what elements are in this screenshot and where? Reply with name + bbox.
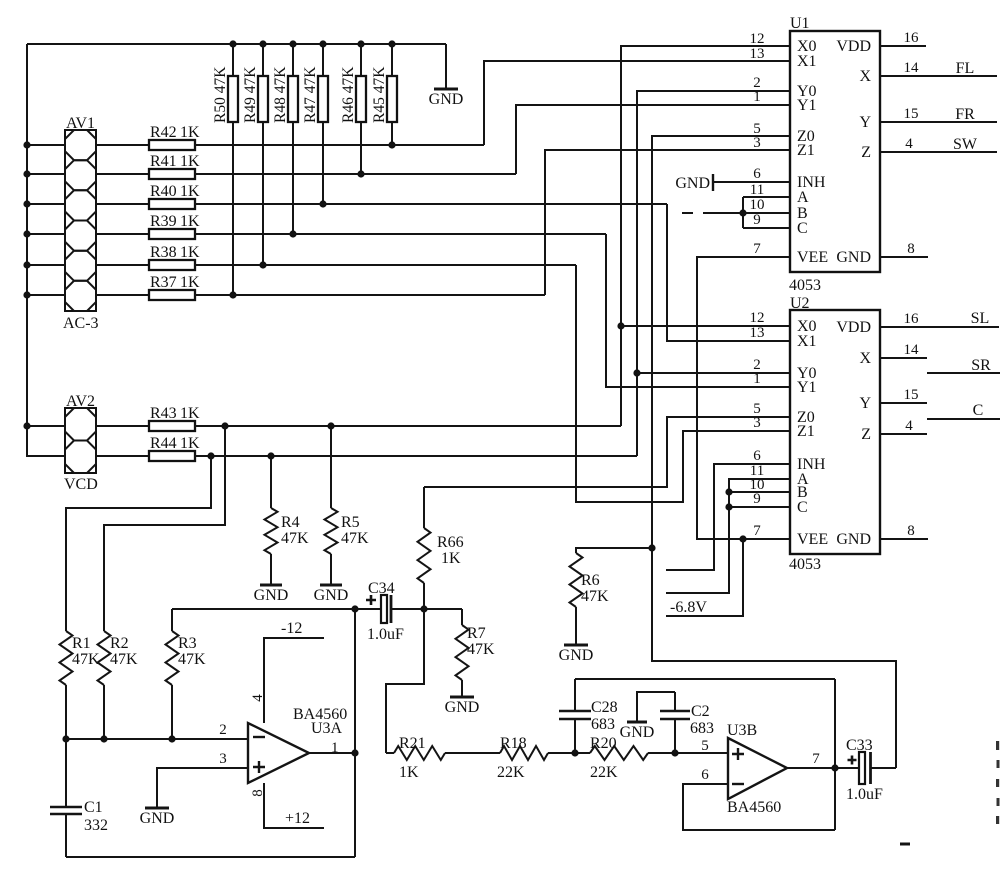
svg-text:6: 6 [753, 448, 761, 464]
capacitor C34 1.0uF electrolytic [366, 580, 404, 643]
svg-text:13: 13 [750, 46, 765, 62]
junction dot left bus row y=234 [23, 230, 30, 237]
svg-text:U2: U2 [790, 295, 810, 312]
resistor R48 47K vertical [272, 44, 298, 234]
wire R39 output row [195, 233, 606, 235]
junction dot -6.8V tap on VEE link [739, 535, 746, 542]
svg-text:1K: 1K [180, 183, 200, 200]
wire C34 right to R7 corner [392, 608, 462, 610]
connector AV2 (2-pin, VCD input) [64, 393, 98, 493]
svg-text:C1: C1 [84, 799, 103, 816]
svg-text:683: 683 [591, 716, 615, 733]
wire from AV1 to resistor R41 [96, 173, 149, 175]
wire AV1 row R38 from left bus to connector [27, 264, 65, 266]
junction dot R6 tap at (652,548) [648, 544, 655, 551]
svg-text:R3: R3 [178, 635, 197, 652]
svg-text:GND: GND [620, 724, 655, 741]
svg-text:47K: 47K [281, 530, 309, 547]
capacitor C2 683 [660, 692, 714, 753]
wire U2 VDD pin 16 output SL [880, 326, 999, 328]
svg-text:R2: R2 [110, 635, 129, 652]
svg-text:47K: 47K [467, 641, 495, 658]
resistor R21 1K horizontal [386, 735, 445, 781]
resistor R49 47K vertical [242, 44, 268, 265]
wire R40 output row [195, 203, 667, 205]
svg-text:FR: FR [955, 106, 975, 123]
svg-text:22K: 22K [497, 764, 525, 781]
wire U2 X pin 14 [880, 357, 927, 359]
svg-text:R45 47K: R45 47K [371, 66, 388, 123]
wire net R38 to U2.Z1: down at x=576, right, up at x=683 [576, 265, 790, 502]
svg-text:R40: R40 [150, 183, 177, 200]
wire top bus from left bus to GND drop [27, 43, 446, 45]
resistor R7 47K vertical [456, 609, 496, 697]
svg-text:Z1: Z1 [797, 142, 815, 159]
svg-text:R20: R20 [590, 735, 617, 752]
wire AV1 row R42 from left bus to connector [27, 144, 65, 146]
resistor R47 47K vertical [302, 44, 328, 204]
ground GND at U3A pin 3 [140, 808, 175, 827]
svg-text:332: 332 [84, 817, 108, 834]
svg-text:BA4560: BA4560 [727, 799, 781, 816]
wire C34 node down to R21 input [386, 609, 424, 753]
svg-text:47K: 47K [178, 651, 206, 668]
wire output SR stub [927, 372, 1000, 374]
wire U2 A/B/C bracket x=729 down to open stub [666, 479, 790, 593]
svg-text:1K: 1K [180, 274, 200, 291]
svg-text:R6: R6 [581, 572, 600, 589]
resistor R4 47K to ground from R44 row [265, 456, 310, 585]
svg-text:Z: Z [861, 144, 871, 161]
svg-text:R46 47K: R46 47K [340, 66, 357, 123]
svg-text:VDD: VDD [836, 319, 871, 336]
minus mark near bottom right [900, 843, 910, 846]
svg-text:Y1: Y1 [797, 379, 817, 396]
resistor R6 47K vertical [570, 553, 610, 645]
wire R18 to R20 [548, 752, 590, 754]
wire AV1 row R40 from left bus to connector [27, 203, 65, 205]
svg-text:U3B: U3B [727, 722, 757, 739]
wire R44 row from AV2 to x=637 [96, 455, 149, 457]
resistor R1 47K vertical [60, 631, 101, 739]
svg-text:16: 16 [904, 311, 920, 327]
wire U2 INH pin 6 stub to open end [666, 464, 790, 570]
svg-text:1.0uF: 1.0uF [367, 626, 404, 643]
wire U1 Z pin 4 output SW [880, 151, 997, 153]
ground GND below R4 [254, 585, 289, 604]
wire R6 top link [576, 548, 652, 553]
wire net R44 up at x=637 to U1.Y0 [637, 91, 790, 456]
svg-text:R18: R18 [500, 735, 527, 752]
resistor R18 22K horizontal [497, 735, 548, 781]
wire U2 GND pin 8 [880, 538, 928, 540]
wire R21 to R18 [445, 752, 500, 754]
svg-text:1.0uF: 1.0uF [846, 786, 883, 803]
svg-text:R4: R4 [281, 514, 300, 531]
svg-text:R42: R42 [150, 124, 177, 141]
svg-text:GND: GND [429, 91, 464, 108]
svg-text:R21: R21 [399, 735, 426, 752]
svg-text:683: 683 [690, 720, 714, 737]
wire -6.8V stub [666, 539, 743, 616]
junction dot U2.Y0 tap on x=637 [633, 369, 640, 376]
svg-text:12: 12 [750, 31, 765, 47]
svg-text:1K: 1K [180, 405, 200, 422]
wire net R40 to U2.X1: down at x=667 then right [667, 204, 790, 341]
wire feedback vertical x=355 [354, 609, 356, 857]
wire from AV1 to resistor R37 [96, 294, 149, 296]
svg-text:1K: 1K [180, 124, 200, 141]
svg-text:R7: R7 [467, 625, 486, 642]
svg-text:11: 11 [750, 182, 764, 198]
wire U1 A/B/C bracket x=743 [742, 197, 744, 228]
svg-text:4053: 4053 [789, 556, 821, 573]
junction dot left bus row y=145 [23, 141, 30, 148]
junction dots where R45..R50 meet AV1 rows [229, 291, 236, 298]
svg-text:1K: 1K [180, 213, 200, 230]
junction dot R4 top [267, 452, 274, 459]
resistor R3 47K vertical [166, 631, 207, 739]
svg-text:R44: R44 [150, 435, 177, 452]
wire R3/C34 line y=609 [172, 608, 382, 610]
svg-text:R41: R41 [150, 153, 177, 170]
svg-text:3: 3 [753, 135, 761, 151]
svg-text:R50 47K: R50 47K [212, 66, 229, 123]
wire R41 output row [195, 173, 516, 175]
svg-text:3: 3 [219, 751, 227, 767]
svg-text:Z1: Z1 [797, 423, 815, 440]
svg-text:14: 14 [904, 342, 920, 358]
junction dot U2 pin B bracket [725, 488, 732, 495]
ground GND tick at U1 pin 6 INH [675, 174, 790, 192]
junction dot node at R3 [168, 735, 175, 742]
svg-text:-6.8V: -6.8V [670, 599, 707, 616]
wire U2 Z pin 4 [880, 433, 927, 435]
wire U1 GND pin 8 [880, 256, 928, 258]
junction dot U2.X0 tap on x=621 [617, 322, 624, 329]
svg-text:16: 16 [904, 30, 920, 46]
svg-text:U3A: U3A [311, 720, 343, 737]
wire net R42 to U1.X1: up at x=484 then right [484, 61, 790, 145]
svg-text:Y: Y [859, 395, 871, 412]
wire net R37 to U1.Z1: up at x=545 then right [545, 150, 790, 295]
wire from AV1 to resistor R39 [96, 233, 149, 235]
wire inverting input node row y=739 [66, 738, 248, 740]
svg-text:R48 47K: R48 47K [272, 66, 289, 123]
wire from AV1 to resistor R38 [96, 264, 149, 266]
svg-text:9: 9 [753, 212, 761, 228]
junction dot node at R2 [100, 735, 107, 742]
junction dot node at R1 [62, 735, 69, 742]
svg-text:SL: SL [971, 310, 990, 327]
wire left bus to AV2 pin 2 [27, 455, 65, 457]
wire net R41 to U1.Y1: up at x=516 then right [516, 105, 790, 174]
junction dot left bus row y=204 [23, 200, 30, 207]
svg-text:SR: SR [971, 357, 991, 374]
svg-text:14: 14 [904, 60, 920, 76]
IC U2 4053 analog switch [789, 295, 880, 573]
op-amp U3B BA4560 [727, 722, 787, 816]
svg-text:8: 8 [907, 523, 915, 539]
junction dot C2 bottom node [671, 749, 678, 756]
resistor R5 47K to ground from R43 row [325, 426, 370, 585]
svg-text:15: 15 [904, 387, 919, 403]
junction dot U2 pin C bracket [725, 503, 732, 510]
svg-text:X: X [859, 68, 871, 85]
svg-text:R47 47K: R47 47K [302, 66, 319, 123]
svg-text:9: 9 [753, 491, 761, 507]
svg-text:6: 6 [701, 767, 709, 783]
resistor R42 1K horizontal [149, 124, 200, 150]
wire U2 Y pin 15 [880, 402, 927, 404]
svg-text:C33: C33 [846, 737, 873, 754]
resistor R50 47K vertical [212, 44, 238, 295]
svg-text:8: 8 [250, 789, 266, 797]
resistor R40 1K horizontal [149, 183, 200, 209]
svg-text:R43: R43 [150, 405, 177, 422]
svg-text:GND: GND [254, 587, 289, 604]
svg-text:C2: C2 [691, 703, 710, 720]
wire feedback top loop y=679 [575, 678, 835, 680]
ground GND below R5 [314, 585, 349, 604]
junction dot U1 pin B bracket [739, 209, 746, 216]
svg-text:4053: 4053 [789, 277, 821, 294]
wire branch R44 node down to R1 [66, 456, 211, 631]
capacitor C28 683 [559, 679, 618, 753]
svg-text:R1: R1 [72, 635, 91, 652]
svg-text:VCD: VCD [64, 476, 98, 493]
svg-text:C: C [797, 499, 808, 516]
svg-text:GND: GND [836, 249, 871, 266]
wire net R39 to U2.Y1: down at x=606 then right [606, 234, 790, 387]
svg-text:R5: R5 [341, 514, 360, 531]
wire U1 Y pin 15 output FR [880, 121, 997, 123]
svg-text:1K: 1K [399, 764, 419, 781]
junction dot left bus row y=295 [23, 291, 30, 298]
wire net U1.Z0 from C33 via x=652 [652, 136, 896, 768]
resistor R45 47K vertical [371, 44, 397, 145]
svg-text:5: 5 [701, 738, 709, 754]
junction dot left bus row y=174 [23, 170, 30, 177]
capacitor C1 332 [50, 739, 108, 857]
svg-text:R37: R37 [150, 274, 177, 291]
resistor R20 22K horizontal [590, 735, 648, 781]
svg-text:VDD: VDD [836, 38, 871, 55]
wire from AV1 to resistor R42 [96, 144, 149, 146]
wire U3B output pin 7 [787, 767, 859, 769]
wire net R43 up at x=621 to U1.X0 [621, 46, 790, 426]
svg-text:6: 6 [753, 166, 761, 182]
svg-text:X1: X1 [797, 53, 817, 70]
svg-text:R38: R38 [150, 244, 177, 261]
resistor R46 47K vertical [340, 44, 366, 174]
op-amp U3A BA4560 [248, 706, 347, 783]
svg-text:A: A [797, 189, 809, 206]
svg-text:4: 4 [250, 694, 266, 702]
ground GND between C28 and C2 [620, 692, 675, 741]
svg-text:GND: GND [559, 647, 594, 664]
svg-text:R66: R66 [437, 534, 464, 551]
resistor R41 1K horizontal [149, 153, 200, 179]
svg-text:-12: -12 [281, 620, 302, 637]
svg-text:47K: 47K [110, 651, 138, 668]
svg-text:47K: 47K [581, 588, 609, 605]
IC U1 4053 analog switch [789, 15, 880, 294]
wire R42 output row [195, 144, 484, 146]
wire C33 right plate to x=896 riser [871, 767, 896, 769]
wire U1 pin B with broken dash [703, 212, 790, 214]
svg-text:1K: 1K [180, 244, 200, 261]
svg-text:10: 10 [750, 197, 765, 213]
svg-text:C34: C34 [368, 580, 395, 597]
wire AV1 row R39 from left bus to connector [27, 233, 65, 235]
svg-text:4: 4 [905, 418, 913, 434]
resistor R37 1K horizontal [149, 274, 200, 300]
svg-text:GND: GND [836, 531, 871, 548]
wire U1 VDD pin 16 [880, 45, 926, 47]
svg-text:FL: FL [956, 60, 975, 77]
svg-text:R49 47K: R49 47K [242, 66, 259, 123]
wire left bus vertical x=27 [26, 44, 28, 457]
wire left bus to AV2 pin 1 [27, 425, 65, 427]
wire U2.Y0 pin stub [637, 372, 790, 374]
svg-text:GND: GND [140, 810, 175, 827]
svg-text:C28: C28 [591, 699, 618, 716]
svg-text:AV1: AV1 [66, 115, 95, 132]
wire feedback right vertical x=835 [834, 679, 836, 830]
svg-text:13: 13 [750, 325, 765, 341]
svg-text:22K: 22K [590, 764, 618, 781]
svg-text:Z: Z [861, 426, 871, 443]
svg-text:GND: GND [314, 587, 349, 604]
svg-text:R39: R39 [150, 213, 177, 230]
wire +12 supply to U3A pin 8 [250, 783, 324, 828]
svg-text:GND: GND [445, 699, 480, 716]
svg-text:AC-3: AC-3 [63, 315, 99, 332]
junction dot R44 branch at x=211 [207, 452, 214, 459]
wire net U2.Z0 from R66 via x=667 [424, 417, 790, 487]
svg-text:C: C [797, 220, 808, 237]
svg-text:2: 2 [219, 722, 227, 738]
junction dot R5 top [327, 422, 334, 429]
svg-text:7: 7 [753, 523, 761, 539]
wire branch R43 node down to R2 [104, 426, 225, 631]
ground GND top right of resistor bank [445, 44, 447, 88]
wire U1 VEE to U2 VEE and -6.8V rail [697, 257, 790, 539]
svg-text:AV2: AV2 [66, 393, 95, 410]
wire R38 output row [195, 264, 576, 266]
junction dot C34 line tap [351, 605, 358, 612]
svg-text:8: 8 [907, 241, 915, 257]
wire U1 X pin 14 output FL [880, 75, 997, 77]
svg-text:47K: 47K [341, 530, 369, 547]
svg-text:VEE: VEE [797, 531, 828, 548]
capacitor C33 1.0uF electrolytic [846, 737, 883, 803]
junction dot left bus AV2 row [23, 422, 30, 429]
svg-text:+12: +12 [285, 810, 310, 827]
ground GND below R7 [445, 697, 480, 716]
svg-text:U1: U1 [790, 15, 810, 32]
svg-text:1K: 1K [180, 153, 200, 170]
svg-text:C: C [973, 402, 984, 419]
svg-text:1: 1 [753, 89, 761, 105]
connector AV1 (6-pin, AC-3 input) [63, 115, 99, 332]
junction dot C34 output node [420, 605, 427, 612]
junction dot R43 branch at x=225 [221, 422, 228, 429]
svg-text:X: X [859, 350, 871, 367]
wire -12 supply to U3A pin 4 [250, 620, 324, 723]
junction dot C28 bottom node [571, 749, 578, 756]
svg-text:12: 12 [750, 310, 765, 326]
wire R37 output row [195, 294, 545, 296]
ground GND below R6 [559, 645, 594, 664]
svg-text:1K: 1K [441, 550, 461, 567]
svg-text:1K: 1K [180, 435, 200, 452]
svg-text:X1: X1 [797, 333, 817, 350]
wire U3B pin 6 feedback loop [683, 784, 835, 830]
svg-text:1: 1 [331, 740, 339, 756]
wire R43 row from AV2 to x=621 [96, 425, 149, 427]
svg-text:4: 4 [905, 136, 913, 152]
svg-text:Y: Y [859, 114, 871, 131]
wire U2.X0 pin stub [621, 325, 790, 327]
wire U3A output pin 1 [309, 752, 355, 754]
wire R20 to U3B pin 5 [648, 752, 728, 754]
svg-text:47K: 47K [72, 651, 100, 668]
svg-text:VEE: VEE [797, 249, 828, 266]
junction dot U3A output feedback node [351, 749, 358, 756]
svg-text:GND: GND [675, 175, 710, 192]
wire AV1 row R41 from left bus to connector [27, 173, 65, 175]
svg-text:7: 7 [812, 751, 820, 767]
svg-text:SW: SW [953, 136, 978, 153]
junction dot U3B output node [831, 764, 838, 771]
resistor R43 1K horizontal [149, 405, 200, 431]
junction dot left bus row y=265 [23, 261, 30, 268]
resistor R66 1K vertical [418, 487, 464, 609]
wire AV1 row R37 from left bus to connector [27, 294, 65, 296]
resistor R2 47K vertical [98, 631, 139, 739]
svg-text:1: 1 [753, 371, 761, 387]
svg-text:15: 15 [904, 106, 919, 122]
wire output C stub [927, 418, 1000, 420]
wire bottom feedback run y=857 [66, 856, 355, 858]
wire R3 top to C34 line [171, 609, 173, 631]
resistor R38 1K horizontal [149, 244, 200, 270]
svg-text:7: 7 [753, 241, 761, 257]
svg-text:Y1: Y1 [797, 97, 817, 114]
resistor R39 1K horizontal [149, 213, 200, 239]
wire U3A pin 3 and ground [157, 768, 248, 808]
resistor R44 1K horizontal [149, 435, 200, 461]
cropped glyphs at right edge [996, 741, 1000, 824]
junction dots on top bus at 47K resistor tops [229, 40, 236, 47]
wire from AV1 to resistor R40 [96, 203, 149, 205]
